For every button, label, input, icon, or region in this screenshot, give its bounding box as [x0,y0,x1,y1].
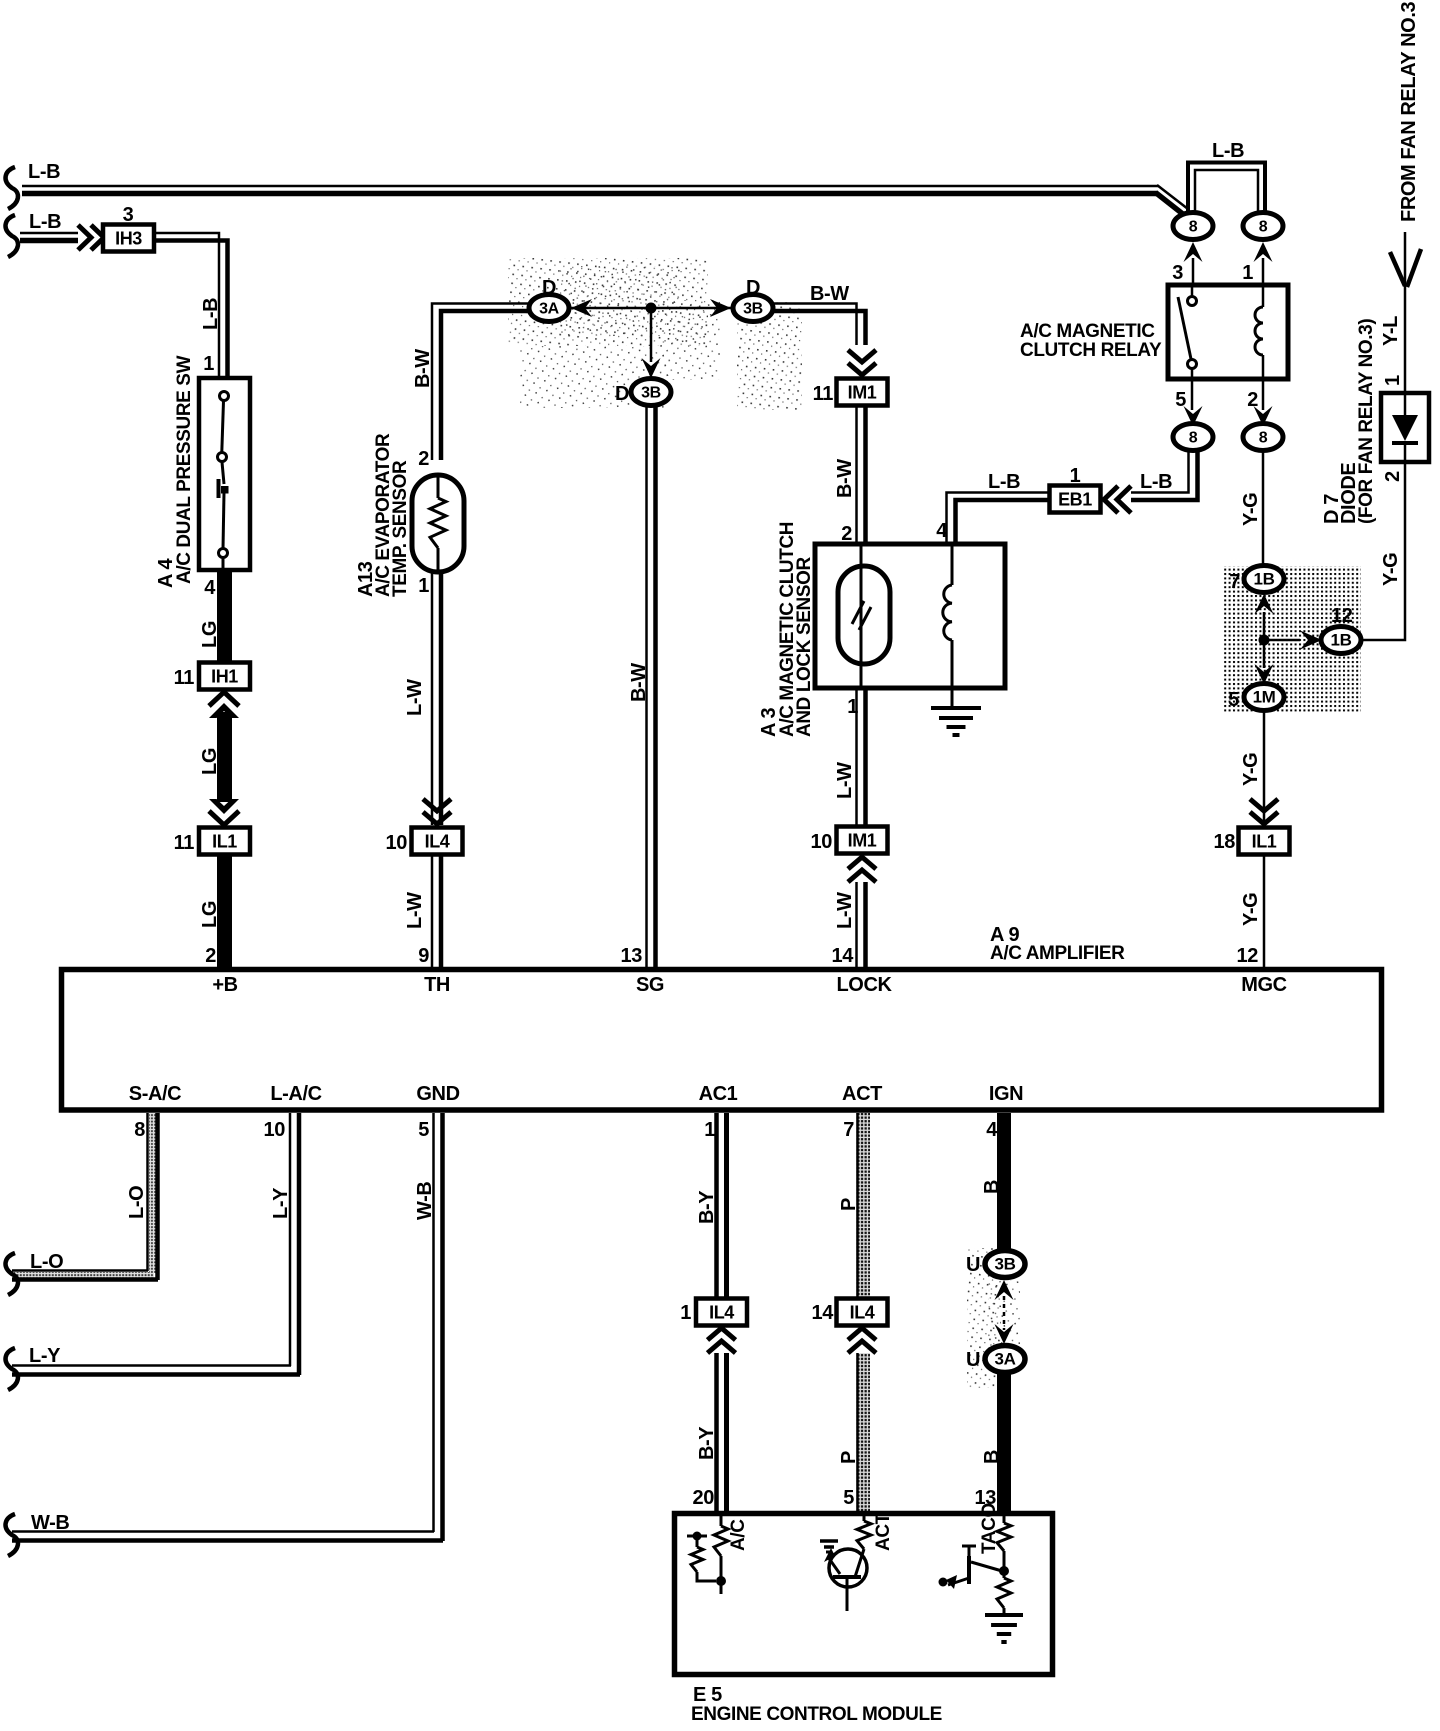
relay A/C magnetic clutch relay [1168,285,1288,379]
svg-text:10: 10 [264,1119,286,1141]
svg-text:IL4: IL4 [850,1303,875,1323]
wire L-B into junction IH3 [20,232,78,235]
svg-text:L-B: L-B [200,298,222,330]
junction connector IL4 (pin 1) [696,1299,747,1326]
page connector curl (L-B wire to IH3) [6,215,18,257]
arrow up into connector 8 (pin 3) [1184,242,1203,262]
svg-text:IH3: IH3 [115,229,142,249]
wire P (shielded) from IL4 to ECM ACT [856,1353,870,1511]
svg-text:L-A/C: L-A/C [270,1083,321,1105]
svg-text:3A: 3A [539,301,559,318]
svg-text:5: 5 [418,1119,429,1141]
wire P (shielded) from amplifier ACT to IL4 [856,1113,870,1298]
svg-text:LOCK: LOCK [836,974,892,996]
wire W-B from amplifier GND to page edge [432,1113,435,1532]
svg-text:B: B [981,1450,1003,1464]
connector 1B (pin 12) [1321,627,1361,654]
arrow down into connector 8 (pin 5) [1184,406,1203,426]
svg-text:L-B: L-B [988,471,1020,493]
svg-text:Y-G: Y-G [1240,753,1262,786]
svg-text:12: 12 [1331,605,1353,627]
connector 8 (below relay pin 2) [1243,424,1283,451]
page connector curl (L-Y) [6,1348,18,1390]
svg-text:L-W: L-W [834,892,856,929]
svg-text:TACO: TACO [979,1503,1000,1554]
svg-text:IL1: IL1 [212,832,237,852]
svg-text:L-W: L-W [404,892,426,929]
halftone speckle around D 3A/3B junction [508,258,708,346]
svg-text:IGN: IGN [989,1083,1023,1105]
svg-text:B-W: B-W [810,283,849,305]
junction connector IM1 (lower) [837,827,888,854]
wire L-W from lock sensor to IM1 (lower) [855,688,858,826]
svg-text:B-W: B-W [834,459,856,498]
component A13 A/C evaporator temp sensor (thermistor) [412,475,464,572]
svg-text:EB1: EB1 [1058,490,1092,510]
wire B thick from U 3A to ECM TACO [997,1373,1011,1511]
ground [931,706,981,710]
component A3 A/C magnetic clutch and lock sensor [815,544,1005,688]
svg-text:IM1: IM1 [848,383,877,403]
connector 8 (relay pin 3) [1173,213,1213,240]
svg-text:14: 14 [812,1302,835,1324]
svg-text:9: 9 [418,945,429,967]
svg-text:E 5: E 5 [693,1684,722,1706]
svg-text:3B: 3B [743,301,763,318]
arrow up into connector 8 (pin 1) [1254,242,1273,262]
wire B-W from D 3B lower to amplifier SG [645,406,648,967]
component A4 A/C dual pressure switch [199,378,250,570]
page connector curl (L-O) [6,1253,18,1295]
junction connector IH3 [103,225,154,252]
page arrow up (LG wire below IH1) [209,692,239,706]
svg-text:2: 2 [1382,471,1404,482]
wire L-B from lock sensor pin 4 up to EB1 [947,493,1051,545]
svg-text:5: 5 [1228,689,1239,711]
dashed wire between U 3B and U 3A [1003,1296,1006,1330]
wire L-W from evaporator sensor to IL4 [431,572,434,825]
svg-text:P: P [838,1198,860,1211]
wire L-B from IH3 down to A/C dual pressure switch [154,233,219,378]
wire junction to 1B (pin 12) [1264,639,1300,642]
svg-text:L-B: L-B [1140,471,1172,493]
junction connector IL4 [412,828,463,855]
page arrow down (B-W wire above IM1) [848,350,876,362]
svg-text:S-A/C: S-A/C [129,1083,181,1105]
svg-text:FROM FAN RELAY NO.3: FROM FAN RELAY NO.3 [1398,2,1420,222]
svg-text:1: 1 [1242,262,1253,284]
svg-text:L-O: L-O [30,1251,63,1273]
node junction dot [1259,635,1270,646]
page connector curl (W-B) [6,1514,18,1556]
ground [985,1613,1023,1617]
node junction dot [646,303,657,314]
page arrow up (L-W wire below IM1) [848,870,876,882]
page connector curl (top L-B wire) [6,167,18,209]
halftone box around connectors 1B/1M [1224,566,1361,712]
junction connector IL1 [199,828,250,855]
wire L-B from relay pin 5 oval to EB1 [1131,450,1189,493]
resistor to ground (TACO) [997,1578,1011,1608]
connector D 3A [529,295,569,322]
svg-text:8: 8 [1189,219,1198,236]
component E5 engine control module [675,1514,1053,1675]
svg-text:A/C: A/C [728,1519,749,1551]
svg-text:IL4: IL4 [709,1303,734,1323]
svg-text:Y-L: Y-L [1380,316,1402,346]
svg-text:IL1: IL1 [1252,832,1277,852]
connector U 3B [985,1251,1025,1278]
ECM A/C input circuit [720,1511,723,1526]
wire L-B (long horizontal, to A/C magnetic clutch relay) [22,185,1158,188]
page arrow down (L-W wire above IL4) [423,799,451,811]
wire B-W from D 3B to IM1 [773,304,857,346]
svg-text:5: 5 [843,1487,854,1509]
arrow into 1B (pin 12) [1300,631,1322,650]
wire (junction bus between D 3A and D 3B) [569,307,733,310]
svg-text:L-O: L-O [126,1186,148,1219]
svg-text:(FOR FAN RELAY NO.3): (FOR FAN RELAY NO.3) [1356,319,1377,524]
wire down to junction [1263,612,1266,668]
svg-text:TH: TH [424,974,450,996]
svg-text:4: 4 [204,577,216,599]
arrow into D 3B (lower) [642,358,661,378]
svg-text:2: 2 [1247,389,1258,411]
wire relay pin 5 down [1191,379,1194,410]
svg-text:IM1: IM1 [848,831,877,851]
svg-text:TEMP. SENSOR: TEMP. SENSOR [390,460,411,597]
page arrow down (LG wire above IL1) [209,799,239,814]
svg-text:1: 1 [418,575,429,597]
svg-text:4: 4 [986,1119,998,1141]
svg-text:D: D [615,383,629,405]
svg-text:B: B [981,1180,1003,1194]
diode D7 (for fan relay no.3) [1381,393,1429,462]
page arrow down (Y-G above IL1) [1250,799,1278,811]
coil branch of lock sensor [951,544,954,585]
svg-text:IH1: IH1 [211,667,238,687]
svg-text:3B: 3B [995,1255,1016,1274]
arrow down into 1M [1255,664,1274,684]
svg-text:+B: +B [212,974,237,996]
junction connector EB1 [1050,486,1101,513]
wire Y-G from connector 8 down to 1B [1262,450,1265,566]
svg-text:L-B: L-B [29,211,61,233]
junction connector IL4 (pin 14) [837,1299,888,1326]
wire L-B loop over relay connectors [1188,163,1265,215]
svg-text:20: 20 [693,1487,715,1509]
svg-text:L-W: L-W [834,762,856,799]
connector 1B (pin 7) [1244,566,1284,593]
svg-text:8: 8 [134,1119,145,1141]
svg-text:ACT: ACT [873,1512,894,1551]
arrow down into U 3A [995,1324,1014,1344]
component A9 A/C amplifier [62,970,1382,1111]
svg-text:3B: 3B [641,385,661,402]
page chevron arrow into EB1 [1104,486,1118,513]
ECM TACO circuit [1003,1511,1006,1523]
arrow into D 3B [710,299,731,317]
svg-text:L-W: L-W [404,679,426,716]
svg-text:8: 8 [1259,430,1268,447]
arrow up into U 3B [995,1280,1014,1300]
wire B-W from D 3A connector to evaporator sensor [432,304,529,461]
wire from 1B pin 12 to diode D7 [1361,462,1405,640]
svg-text:1: 1 [680,1302,691,1324]
page chevron arrow into IH3 [78,225,91,250]
wire Y-G from IL1 to amplifier MGC [1263,855,1266,967]
svg-text:CLUTCH RELAY: CLUTCH RELAY [1020,340,1162,361]
svg-text:ENGINE CONTROL MODULE: ENGINE CONTROL MODULE [691,1704,942,1725]
svg-text:L-Y: L-Y [270,1187,292,1219]
svg-text:2: 2 [205,945,216,967]
svg-text:11: 11 [813,383,834,405]
svg-text:11: 11 [174,667,195,689]
relay switch contact [1191,285,1194,296]
junction connector IH1 [199,663,250,690]
svg-text:L-B: L-B [1212,140,1244,162]
svg-text:W-B: W-B [31,1512,69,1534]
svg-text:IL4: IL4 [425,832,450,852]
wire B-W from IM1 to lock sensor [855,406,858,544]
ECM ACT output transistor [863,1511,866,1521]
svg-text:7: 7 [843,1119,854,1141]
svg-text:Y-G: Y-G [1240,493,1262,526]
svg-text:A/C MAGNETIC: A/C MAGNETIC [1020,321,1155,342]
svg-text:LG: LG [199,621,221,648]
svg-text:3: 3 [1172,262,1183,284]
svg-text:10: 10 [386,832,408,854]
wire B thick from amplifier IGN to U 3B [997,1113,1011,1250]
svg-text:3A: 3A [995,1350,1016,1369]
svg-text:P: P [838,1451,860,1464]
svg-text:A/C DUAL PRESSURE SW: A/C DUAL PRESSURE SW [174,355,195,584]
svg-text:8: 8 [1189,430,1198,447]
relay coil [1262,285,1265,307]
svg-text:L-B: L-B [28,161,60,183]
junction connector IL1 (pin 18) [1239,828,1290,855]
wire Y-L from fan relay no.3 [1404,232,1407,393]
svg-text:AND LOCK SENSOR: AND LOCK SENSOR [794,557,815,737]
connector 8 (below relay pin 5) [1173,424,1213,451]
svg-text:18: 18 [1214,831,1236,853]
wire L-Y from amplifier L-A/C to page edge [289,1113,292,1366]
svg-text:1: 1 [1382,375,1404,386]
svg-text:B-W: B-W [412,349,434,388]
svg-text:B-Y: B-Y [696,1190,718,1224]
svg-text:1: 1 [704,1119,715,1141]
svg-text:7: 7 [1229,571,1240,593]
svg-text:SG: SG [636,974,664,996]
svg-text:1: 1 [203,353,214,375]
svg-text:11: 11 [174,832,195,854]
arrow up into 1B [1255,594,1274,614]
wire LG thick from IL1 to A/C amplifier +B [217,855,232,967]
svg-text:13: 13 [621,945,643,967]
arrow into D 3A [571,299,592,317]
svg-text:14: 14 [832,945,855,967]
connector U 3A [985,1346,1025,1373]
wire B-Y from IL4 to ECM A/C [714,1353,719,1511]
svg-text:ACT: ACT [842,1083,882,1105]
page arrow up (P below IL4) [848,1341,876,1353]
svg-text:LG: LG [199,748,221,775]
wire L-W from IL4 to amplifier TH [431,855,434,967]
svg-text:B-W: B-W [628,663,650,702]
arrow chevron down (from fan relay) [1390,252,1405,286]
svg-text:1B: 1B [1331,631,1352,650]
wire B-Y from amplifier AC1 to IL4 [714,1113,719,1297]
wire L-O from amplifier S-A/C to page edge [149,1113,156,1273]
svg-text:B-Y: B-Y [696,1426,718,1460]
svg-text:Y-G: Y-G [1240,893,1262,926]
svg-text:Y-G: Y-G [1380,553,1402,586]
svg-text:AC1: AC1 [699,1083,738,1105]
svg-text:LG: LG [199,901,221,928]
page arrow up (B-Y below IL4) [708,1341,736,1353]
svg-text:12: 12 [1237,945,1259,967]
wire L-W from IM1 to amplifier LOCK [855,882,858,967]
svg-text:2: 2 [418,448,429,470]
svg-text:MGC: MGC [1241,974,1286,996]
wire Y-G from 1M to IL1 [1263,710,1266,825]
wire LG thick between IH1 and IL1 [217,712,232,802]
svg-text:GND: GND [416,1083,459,1105]
svg-text:A/C AMPLIFIER: A/C AMPLIFIER [990,943,1125,964]
connector D 3B (right) [733,295,773,322]
wire from junction down to D 3B (lower) [650,313,653,362]
wire LG thick from pressure switch to IH1 [217,570,232,662]
connector 8 (relay pin 1) [1243,213,1283,240]
transistor Q (ACT) [829,1549,867,1587]
connector 1M (pin 5) [1244,684,1284,711]
svg-text:U: U [966,1254,980,1276]
svg-text:1B: 1B [1254,570,1275,589]
svg-text:U: U [966,1349,980,1371]
svg-text:8: 8 [1259,219,1268,236]
halftone speckle around U 3A/3B connectors [967,1248,1001,1388]
wire relay pin 2 down [1262,379,1265,410]
svg-text:L-Y: L-Y [29,1345,61,1367]
svg-text:1M: 1M [1253,688,1276,707]
svg-text:W-B: W-B [414,1182,436,1220]
transistor Q (TACO) [967,1556,971,1584]
arrow down into connector 8 (pin 2) [1254,406,1273,426]
svg-text:10: 10 [811,831,833,853]
junction connector IM1 (upper) [837,379,888,406]
connector D 3B (lower) [631,379,671,406]
